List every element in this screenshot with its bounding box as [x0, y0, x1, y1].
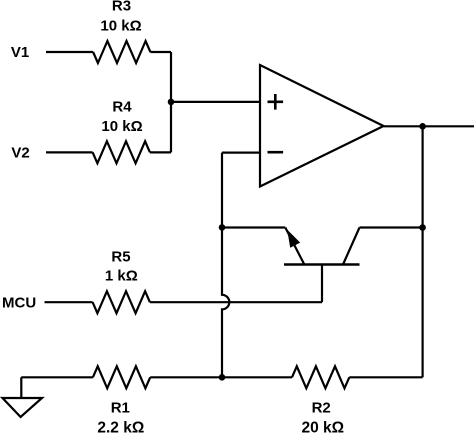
svg-text:R1: R1 — [111, 399, 130, 416]
svg-text:R3: R3 — [112, 0, 131, 15]
node emitter junction dot — [219, 224, 226, 231]
svg-text:20 kΩ: 20 kΩ — [301, 420, 344, 433]
transistor Q1 base bar — [284, 263, 360, 266]
resistor R3 — [93, 41, 150, 63]
wire V1 to R3 — [46, 51, 93, 53]
wire R2 to output column — [349, 376, 422, 378]
svg-text:V1: V1 — [11, 44, 29, 61]
node junction dot (summing node) — [168, 99, 175, 106]
wire to op-amp noninverting input — [171, 101, 260, 103]
wire R4 to corner — [150, 151, 171, 153]
wire inverting input vertical with hop over MCU wire — [222, 153, 229, 378]
ground symbol — [3, 377, 43, 417]
wire MCU to R5 — [45, 301, 93, 303]
resistor R4 — [93, 141, 150, 163]
wire output vertical feedback column — [422, 126, 424, 377]
wire feedback node to R2 — [222, 376, 292, 378]
wire emitter horizontal — [222, 226, 285, 228]
transistor Q1 emitter arrow — [287, 230, 300, 248]
resistor R1 — [93, 366, 150, 388]
svg-text:2.2 kΩ: 2.2 kΩ — [97, 420, 144, 433]
wire V2 to R4 — [46, 151, 93, 153]
wire op-amp output — [384, 125, 474, 127]
svg-text:V2: V2 — [11, 145, 29, 162]
op-amp plus pin symbol — [268, 94, 284, 110]
node output junction dot — [419, 123, 426, 130]
svg-text:R4: R4 — [112, 99, 132, 116]
transistor Q1 emitter lead — [285, 228, 304, 265]
node feedback junction dot — [219, 374, 226, 381]
node collector junction dot — [419, 224, 426, 231]
svg-text:MCU: MCU — [2, 295, 36, 312]
svg-text:10 kΩ: 10 kΩ — [100, 18, 141, 35]
svg-text:10 kΩ: 10 kΩ — [101, 118, 142, 135]
transistor Q1 base lead — [321, 265, 323, 303]
wire R1 to feedback node — [150, 376, 222, 378]
wire R3 to corner — [150, 51, 171, 53]
op-amp minus pin symbol — [268, 151, 284, 154]
wire ground to R1 — [21, 376, 93, 378]
resistor R5 — [93, 291, 150, 313]
wire op-amp inverting input stub — [222, 152, 260, 154]
svg-text:1 kΩ: 1 kΩ — [105, 268, 138, 285]
wire vertical R3/R4 junction column — [170, 52, 172, 152]
op-amp U1 triangle — [260, 65, 384, 187]
svg-text:R2: R2 — [312, 399, 331, 416]
svg-text:R5: R5 — [111, 249, 130, 266]
wire collector horizontal — [360, 226, 423, 228]
transistor Q1 collector lead — [343, 228, 360, 265]
wire R5 to transistor base — [150, 301, 322, 303]
resistor R2 — [292, 366, 349, 388]
